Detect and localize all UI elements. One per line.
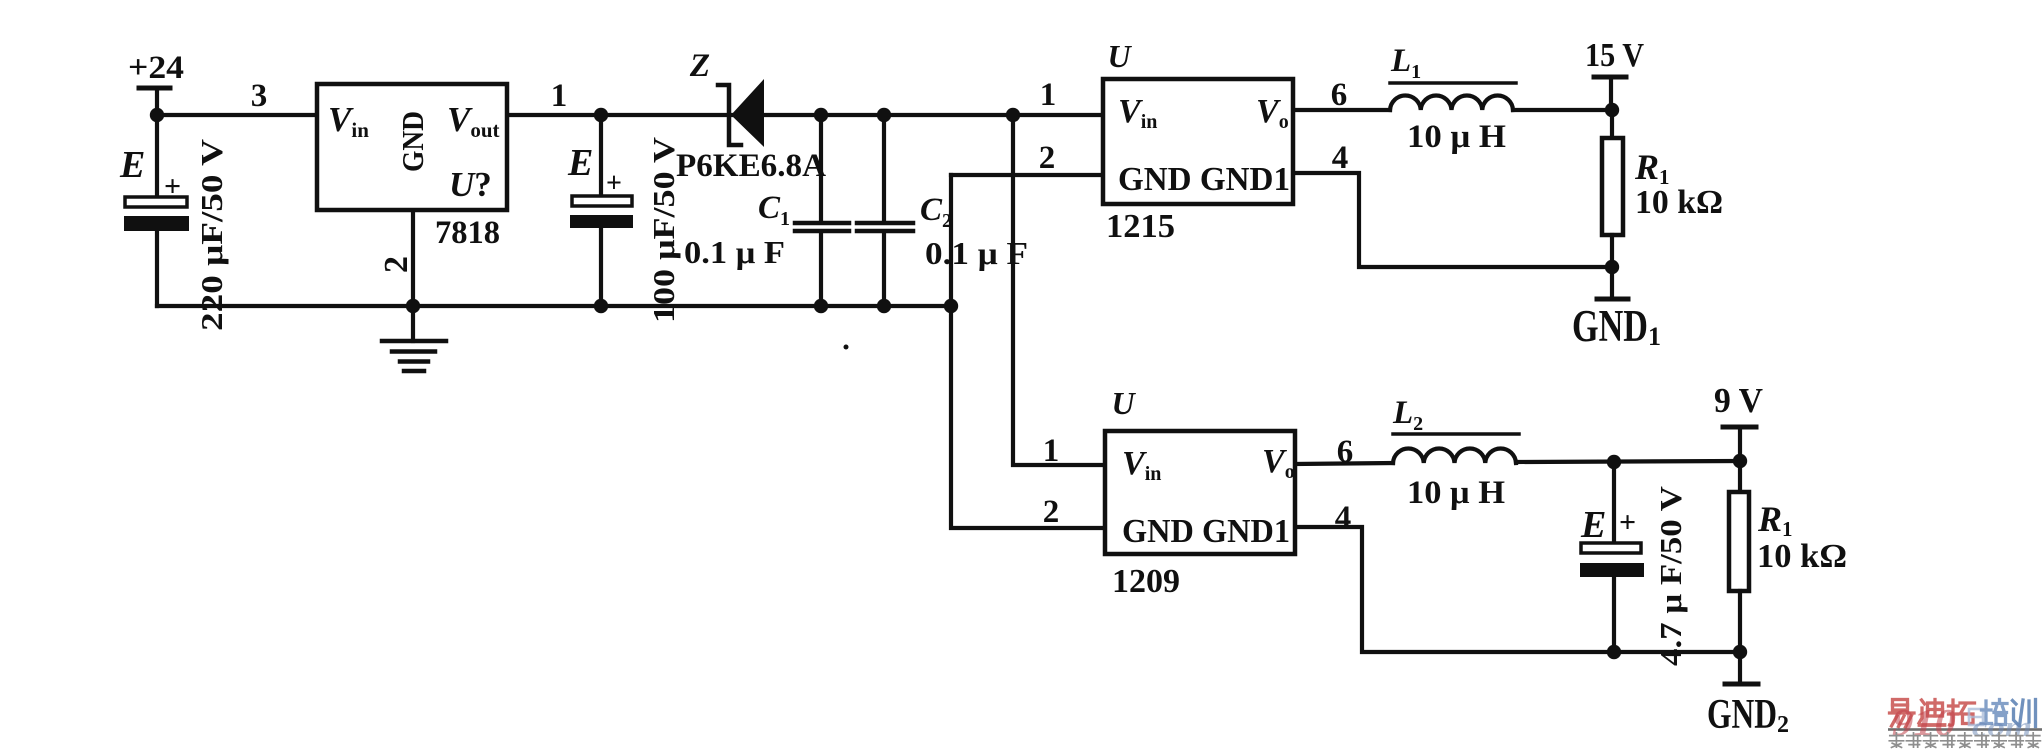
node ground junction [406,299,420,313]
capacitor E3 solid plate [1580,563,1644,577]
logo faint echo box [1969,709,1983,725]
svg-text:910: 910 [1892,702,1956,744]
svg-text:3: 3 [251,78,268,114]
wire 15V stub [1609,77,1613,110]
svg-text:GND2: GND2 [1707,692,1789,738]
wire R1b bottom [1738,591,1742,652]
node feed A top [1006,108,1020,122]
wire R1a bottom [1610,235,1614,267]
node E2 top [594,108,608,122]
node feed B bottom rail [944,299,958,313]
logo underline [1888,728,2042,731]
svg-text:2: 2 [1039,140,1056,176]
ground bar1 [382,339,446,344]
wire +24 stub [155,88,159,115]
terminal +24 bar [139,86,170,91]
node C2 bottom [877,299,891,313]
svg-text:4: 4 [1332,140,1349,176]
resistor R1a body [1602,138,1623,235]
wire 7818 pin2 stub [411,210,415,306]
capacitor E1 hollow plate [125,197,187,207]
node E3 top [1607,455,1621,469]
watermark logo [1888,700,2042,748]
logo char tuo (red) [1949,700,1975,725]
logo subtitle gray chars [1889,733,2040,748]
logo char di (red) [1919,700,1945,726]
op-box U 1215 converter [1103,79,1293,204]
svg-text:U: U [1111,385,1136,421]
node GND1 [1605,260,1619,274]
wire E1 top stub [155,115,159,197]
node GND2 [1733,645,1747,659]
terminal GND2 bar [1725,682,1758,687]
node E2 bottom [594,299,608,313]
node +24/E1 junction [150,108,164,122]
svg-text:220 μF/50 V: 220 μF/50 V [194,138,229,331]
ground bar2 [392,349,435,354]
node 15V [1605,103,1619,117]
inductor L1 overline [1390,81,1516,85]
svg-text:6: 6 [1331,77,1348,113]
wire 9V stub [1738,427,1742,461]
capacitor E1 solid plate [124,216,189,231]
wire L1 to 15V node [1513,108,1612,112]
svg-text:GND1: GND1 [1572,301,1661,351]
svg-text:7818: 7818 [435,215,500,251]
svg-text:10 μ H: 10 μ H [1407,475,1505,511]
svg-text:E: E [567,142,593,184]
wire bottom rail [157,304,951,308]
inductor L1 humps [1390,95,1513,110]
svg-text:1: 1 [1043,433,1060,469]
wire C1 bottom stub [819,232,823,306]
zener Z cathode bar [718,85,741,145]
svg-text:+: + [1619,506,1636,539]
svg-text:1: 1 [1040,77,1057,113]
svg-text:+: + [606,168,622,199]
wire E1 bottom stub [155,231,159,306]
wire E2 top stub [599,115,603,196]
wire E3 bottom stub [1612,577,1616,652]
svg-text:1: 1 [551,78,568,114]
wire 1209 pin4 path [1295,527,1740,652]
logo char yi (red) [1890,700,1915,728]
resistor R1b body [1729,492,1749,591]
svg-text:L1: L1 [1390,43,1421,83]
svg-text:15 V: 15 V [1585,37,1644,74]
svg-text:4.7 μ F/50 V: 4.7 μ F/50 V [1653,485,1688,666]
svg-text:U?: U? [449,165,492,204]
wire GND2 stub [1738,652,1742,682]
svg-text:0.1 μ F: 0.1 μ F [925,235,1028,271]
svg-text:U: U [1107,38,1132,74]
wire node to R1b [1738,461,1742,492]
terminal 9V bar [1723,425,1756,430]
op-box U? 7818 regulator [317,84,507,210]
logo char pei (blue) [1981,700,2007,725]
svg-text:R1: R1 [1634,147,1670,189]
svg-text:1215: 1215 [1106,208,1175,245]
svg-text:+: + [164,170,181,203]
wire 1209 pin6 [1295,463,1393,464]
wire C2 top stub [882,115,886,222]
node zener right [814,108,828,122]
svg-text:2: 2 [1043,494,1060,530]
ground stub [411,306,415,341]
speck artifact [844,345,849,350]
logo char xun (blue) [2013,700,2036,727]
wire C1 top stub [819,115,823,222]
svg-text:E: E [119,144,145,186]
wire down feed A to 1209 pin1 [1013,115,1105,465]
svg-text:9 V: 9 V [1714,381,1763,420]
svg-text:6: 6 [1337,434,1354,470]
svg-text:C2: C2 [920,192,952,232]
svg-text:1209: 1209 [1112,563,1180,600]
svg-text:com: com [1972,711,2032,743]
svg-text:GND GND1: GND GND1 [1122,513,1290,550]
ground bar3 [400,359,428,364]
inductor L2 overline [1393,432,1519,436]
capacitor C1 plates [795,221,849,226]
wire E3 top stub [1612,462,1616,543]
svg-text:E: E [1580,504,1606,546]
svg-text:4: 4 [1335,500,1352,536]
op-box U 1209 converter [1105,431,1295,554]
svg-text:10 μ H: 10 μ H [1407,119,1506,155]
wire E2 bottom stub [599,228,603,306]
capacitor E2 solid plate [570,215,633,228]
wire GND1 stub [1610,267,1614,297]
svg-text:GND GND1: GND GND1 [1118,161,1290,198]
ground bar4 [404,369,424,374]
node C2 top [877,108,891,122]
zener Z triangle [731,79,764,147]
wire 1215 pin4 path [1293,173,1612,267]
wire 1215 pin6 [1293,108,1390,112]
svg-text:Z: Z [689,48,710,84]
svg-text:10 kΩ: 10 kΩ [1635,184,1723,221]
terminal 15V bar [1594,75,1626,80]
svg-text:R1: R1 [1757,499,1793,541]
capacitor C2 plates [857,221,913,226]
svg-text:0.1 μ F: 0.1 μ F [684,234,785,270]
wire down feed B to 1209 pin2 [951,175,1105,528]
node C1 bottom [814,299,828,313]
svg-text:GND: GND [395,111,430,172]
wire node to R1a [1610,110,1614,138]
wire C2 bottom stub [882,232,886,306]
svg-text:C1: C1 [758,190,790,230]
svg-text:L2: L2 [1392,395,1423,435]
node 9V [1733,454,1747,468]
wire L2 to 9V node [1516,461,1740,462]
svg-text:2: 2 [378,256,415,273]
wire top rail [157,113,1103,117]
inductor L2 humps [1393,448,1516,463]
capacitor E2 hollow plate [572,196,632,206]
svg-text:P6KE6.8A: P6KE6.8A [676,148,826,184]
svg-text:10 kΩ: 10 kΩ [1757,538,1847,575]
node E3 bottom [1607,645,1621,659]
terminal GND1 bar [1597,297,1628,302]
svg-text:+24: +24 [128,50,184,86]
wire 1215 pin2 [951,173,1103,177]
capacitor E3 hollow plate [1581,543,1641,553]
